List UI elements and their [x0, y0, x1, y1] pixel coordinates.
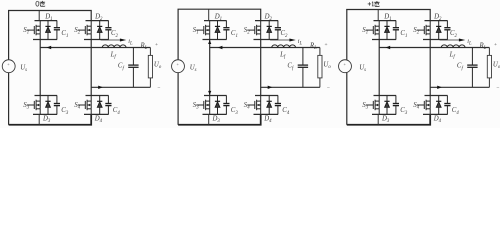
load resistor RL	[488, 48, 490, 56]
capacitor C1	[54, 21, 60, 40]
wire left leg vertical (node A)	[39, 40, 41, 96]
wire right leg vertical (node B)	[260, 40, 262, 96]
switch cell S3 top node wire	[374, 95, 397, 97]
transistor S2	[417, 21, 430, 40]
wire left rail lower	[8, 73, 10, 125]
switch cell S3 bottom node wire	[372, 113, 396, 115]
wire right leg vertical (node B)	[429, 40, 431, 96]
switch cell S2 top node wire	[255, 20, 278, 22]
switch cell S3 top node wire	[35, 95, 58, 97]
wire left rail lower	[346, 73, 348, 125]
diode D4	[436, 96, 441, 115]
transistor S2	[247, 21, 260, 40]
diode D4	[267, 96, 272, 115]
svg-text:+: +	[494, 42, 497, 48]
capacitor Cf	[471, 48, 473, 66]
sub-circuit B	[172, 9, 332, 125]
svg-text:+: +	[325, 42, 328, 48]
switch cell S3 bottom node wire	[203, 113, 227, 115]
inductor Lf	[441, 45, 465, 48]
sub-circuit C	[339, 1, 500, 125]
switch cell S2 bottom node wire	[423, 39, 448, 41]
transistor S3	[27, 96, 40, 115]
current arrow right on bottom wire	[98, 86, 103, 89]
switch cell S4 top node wire	[425, 95, 448, 97]
capacitor C3	[54, 96, 60, 115]
switch cell S1 top node wire	[35, 20, 58, 22]
current arrow down on left leg	[208, 91, 211, 95]
diode D1	[45, 21, 50, 40]
wire bottom return	[91, 86, 150, 88]
diode D1	[384, 21, 389, 40]
wire left rail upper	[177, 9, 179, 60]
capacitor C1	[223, 21, 229, 40]
wire stub top-left (rail to S1)	[208, 9, 210, 20]
inductor Lf	[102, 45, 126, 48]
diode D3	[215, 96, 220, 115]
switch cell S4 top node wire	[86, 95, 109, 97]
wire left rail upper	[346, 10, 348, 60]
wire stub top-left (rail to S1)	[38, 11, 40, 21]
switch cell S3 top node wire	[204, 95, 227, 97]
capacitor C3	[223, 96, 229, 115]
wire stub bottom-left (S3 to rail)	[208, 114, 210, 124]
wire top rail	[178, 9, 261, 20]
diode D3	[45, 96, 50, 115]
wire left leg vertical (node A)	[378, 40, 380, 96]
capacitor C2	[105, 21, 111, 40]
load resistor RL	[149, 48, 151, 56]
diode D1	[215, 21, 220, 40]
diode D2	[267, 21, 272, 40]
voltage source Us	[2, 60, 15, 73]
transistor S4	[417, 96, 430, 115]
load resistor RL	[319, 48, 321, 56]
wire stub bottom-left (S3 to rail)	[38, 114, 40, 124]
wire stub bottom-left (S3 to rail)	[377, 114, 379, 124]
wire mid rail to filter	[379, 47, 489, 49]
current arrow right on bottom wire	[437, 86, 442, 89]
transistor S3	[196, 96, 209, 115]
wire stub top-left (rail to S1)	[377, 10, 379, 21]
wire mid rail to filter	[40, 47, 150, 49]
svg-text:−: −	[496, 85, 499, 91]
switch cell S4 bottom node wire	[254, 113, 279, 115]
wire left leg vertical (node A)	[209, 40, 211, 96]
wire left rail lower	[177, 73, 179, 125]
inductor Lf	[272, 45, 296, 48]
transistor S1	[366, 21, 379, 40]
diode D2	[97, 21, 102, 40]
state label +1态	[368, 2, 374, 6]
switch cell S1 bottom node wire	[203, 39, 227, 41]
wire bottom rail	[9, 114, 92, 124]
capacitor C2	[444, 21, 450, 40]
switch cell S2 top node wire	[425, 20, 448, 22]
svg-text:+: +	[155, 42, 158, 48]
transistor S1	[196, 21, 209, 40]
capacitor C4	[444, 96, 450, 115]
wire bottom return	[430, 86, 489, 88]
switch cell S2 bottom node wire	[84, 39, 109, 41]
capacitor C4	[105, 96, 111, 115]
voltage source Us	[339, 60, 352, 73]
current arrow right on bottom wire	[268, 86, 273, 89]
capacitor C3	[393, 96, 399, 115]
capacitor C1	[393, 21, 399, 40]
capacitor Cf	[302, 48, 304, 66]
sub-circuit A	[2, 1, 162, 125]
diode D3	[384, 96, 389, 115]
diode D4	[97, 96, 102, 115]
switch cell S4 bottom node wire	[423, 113, 448, 115]
state label 0态	[36, 1, 39, 6]
transistor S1	[27, 21, 40, 40]
inductor current arrow iL	[440, 39, 460, 41]
switch cell S2 top node wire	[86, 20, 109, 22]
wire bottom rail	[178, 114, 261, 124]
capacitor Cf	[132, 48, 134, 66]
wire top rail	[9, 11, 92, 21]
capacitor C2	[275, 21, 281, 40]
transistor S4	[78, 96, 91, 115]
switch cell S3 bottom node wire	[33, 113, 57, 115]
current arrow up on left leg	[208, 40, 211, 44]
svg-text:−: −	[157, 85, 160, 91]
current arrow left on mid wire	[218, 46, 223, 49]
switch cell S4 top node wire	[255, 95, 278, 97]
wire mid rail to filter	[210, 47, 320, 49]
capacitor C4	[275, 96, 281, 115]
svg-text:−: −	[327, 85, 330, 91]
inductor current arrow iL	[270, 39, 290, 41]
switch cell S2 bottom node wire	[254, 39, 279, 41]
wire bottom return	[261, 86, 320, 88]
current arrow left on mid wire	[386, 46, 391, 49]
switch cell S1 top node wire	[204, 20, 227, 22]
switch cell S4 bottom node wire	[84, 113, 109, 115]
diode D2	[436, 21, 441, 40]
switch cell S1 bottom node wire	[33, 39, 57, 41]
transistor S4	[247, 96, 260, 115]
voltage source Us	[172, 60, 185, 73]
switch cell S1 top node wire	[374, 20, 397, 22]
wire bottom rail	[347, 114, 430, 124]
wire right leg vertical (node B)	[90, 40, 92, 96]
transistor S2	[78, 21, 91, 40]
switch cell S1 bottom node wire	[372, 39, 396, 41]
wire left rail upper	[8, 11, 10, 60]
inductor current arrow iL	[101, 39, 121, 41]
current arrow left on mid wire	[47, 46, 52, 49]
wire top rail	[347, 10, 430, 21]
transistor S3	[366, 96, 379, 115]
